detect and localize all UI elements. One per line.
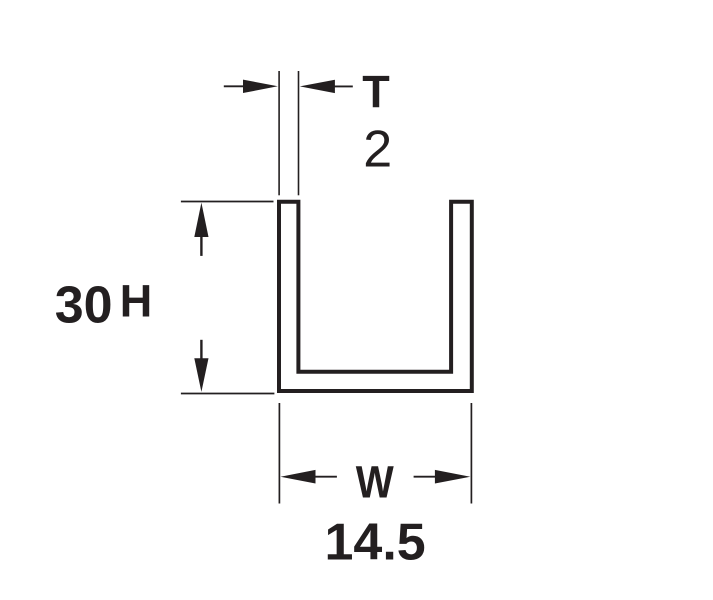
- W dimension left arrowhead: [281, 470, 316, 484]
- H dimension down arrowhead: [194, 358, 208, 392]
- T dimension right arrow tail: [334, 85, 353, 87]
- H dimension up arrowhead: [194, 203, 208, 237]
- W dimension left arrow tail: [315, 476, 337, 478]
- U-channel profile outline: [279, 202, 472, 391]
- T dimension right arrowhead: [300, 80, 335, 93]
- H dimension top extension line: [181, 201, 274, 203]
- W dimension right arrow tail: [414, 476, 436, 478]
- H dimension bottom extension line: [181, 393, 275, 395]
- svg-text:2: 2: [363, 121, 392, 179]
- T dimension left arrowhead: [243, 80, 278, 93]
- W dimension right extension line: [470, 403, 472, 504]
- W dimension right arrowhead: [435, 470, 470, 484]
- T dimension left arrow tail: [224, 85, 246, 87]
- H dimension down arrow tail: [200, 340, 202, 359]
- svg-text:T: T: [362, 67, 390, 118]
- svg-text:W: W: [356, 457, 394, 508]
- svg-text:14.5: 14.5: [325, 514, 426, 572]
- T dimension extension line (inner face): [298, 71, 300, 195]
- W dimension left extension line: [278, 403, 280, 504]
- svg-text:H: H: [120, 276, 153, 327]
- H dimension up arrow tail: [200, 236, 202, 256]
- T dimension extension line (outer face): [278, 71, 280, 195]
- svg-text:30: 30: [55, 276, 113, 334]
